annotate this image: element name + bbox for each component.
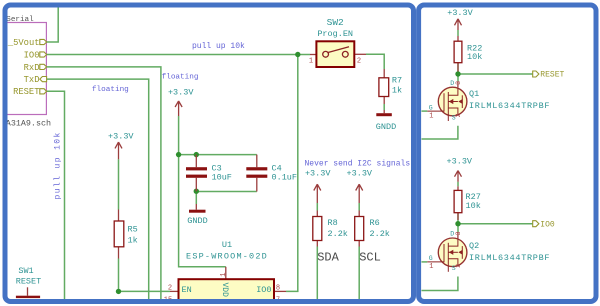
svg-text:IO0: IO0 xyxy=(256,285,271,295)
svg-text:U1: U1 xyxy=(222,240,232,250)
svg-text:1k: 1k xyxy=(392,86,402,96)
svg-text:RESET: RESET xyxy=(540,71,564,80)
svg-text:+3.3V: +3.3V xyxy=(168,87,194,97)
svg-text:IO0: IO0 xyxy=(24,50,40,60)
svg-text:SDA: SDA xyxy=(317,251,339,265)
svg-text:RESET: RESET xyxy=(16,277,42,287)
svg-text:G: G xyxy=(429,255,433,262)
svg-text:IRLML6344TRPBF: IRLML6344TRPBF xyxy=(469,101,550,111)
svg-text:GNDD: GNDD xyxy=(187,216,207,226)
svg-text:VDD: VDD xyxy=(220,283,229,298)
svg-text:RESET: RESET xyxy=(13,87,39,97)
svg-text:1: 1 xyxy=(220,273,228,277)
svg-text:A31A9.sch: A31A9.sch xyxy=(6,119,51,129)
svg-text:3: 3 xyxy=(455,81,462,85)
svg-text:2: 2 xyxy=(455,264,462,268)
svg-text:Q1: Q1 xyxy=(469,89,479,99)
svg-text:2: 2 xyxy=(168,285,172,293)
svg-text:3: 3 xyxy=(455,231,462,235)
svg-text:10k: 10k xyxy=(467,52,482,62)
svg-text:Serial: Serial xyxy=(6,16,34,24)
svg-text:ESP-WROOM-02D: ESP-WROOM-02D xyxy=(186,252,268,262)
svg-text:1k: 1k xyxy=(128,235,138,245)
svg-text:D: D xyxy=(450,231,454,238)
svg-text:10k: 10k xyxy=(466,201,481,211)
svg-text:Prog.EN: Prog.EN xyxy=(317,29,353,39)
svg-text:SW1: SW1 xyxy=(18,266,33,276)
svg-text:TxD: TxD xyxy=(24,75,40,85)
svg-text:R5: R5 xyxy=(128,224,138,234)
svg-text:10uF: 10uF xyxy=(212,173,232,183)
svg-text:R7: R7 xyxy=(392,76,402,86)
svg-text:IO0: IO0 xyxy=(540,220,555,229)
svg-text:1: 1 xyxy=(429,112,433,120)
svg-text:GNDD: GNDD xyxy=(376,122,396,132)
svg-text:R6: R6 xyxy=(370,218,380,228)
svg-text:D: D xyxy=(450,80,454,87)
svg-text:+3.3V: +3.3V xyxy=(347,168,373,178)
svg-text:IRLML6344TRPBF: IRLML6344TRPBF xyxy=(469,253,550,263)
svg-text:+3.3V: +3.3V xyxy=(108,132,134,142)
svg-text:+3.3V: +3.3V xyxy=(447,157,473,167)
svg-text:RxD: RxD xyxy=(24,63,40,73)
svg-text:2.2k: 2.2k xyxy=(328,229,348,239)
svg-text:floating: floating xyxy=(92,86,129,94)
svg-text:SW2: SW2 xyxy=(327,17,344,28)
svg-text:pull up 10k: pull up 10k xyxy=(53,131,62,199)
svg-text:+3.3V: +3.3V xyxy=(447,8,473,18)
svg-text:SCL: SCL xyxy=(359,251,381,265)
svg-text:+3.3V: +3.3V xyxy=(305,168,331,178)
svg-text:R8: R8 xyxy=(328,218,338,228)
svg-text:I_5Vout: I_5Vout xyxy=(3,38,40,48)
svg-text:8: 8 xyxy=(276,284,280,292)
svg-text:Q2: Q2 xyxy=(469,241,479,251)
svg-text:1: 1 xyxy=(429,263,433,271)
svg-text:2: 2 xyxy=(455,113,462,117)
svg-text:pull up 10k: pull up 10k xyxy=(192,42,245,51)
svg-text:2: 2 xyxy=(357,58,361,66)
svg-text:2.2k: 2.2k xyxy=(370,229,390,239)
svg-text:Never send I2C signals: Never send I2C signals xyxy=(305,160,411,169)
svg-text:G: G xyxy=(429,105,433,112)
svg-text:0.1uF: 0.1uF xyxy=(272,173,298,183)
svg-text:floating: floating xyxy=(162,74,199,82)
svg-text:1: 1 xyxy=(309,58,313,66)
svg-text:EN: EN xyxy=(182,285,192,295)
